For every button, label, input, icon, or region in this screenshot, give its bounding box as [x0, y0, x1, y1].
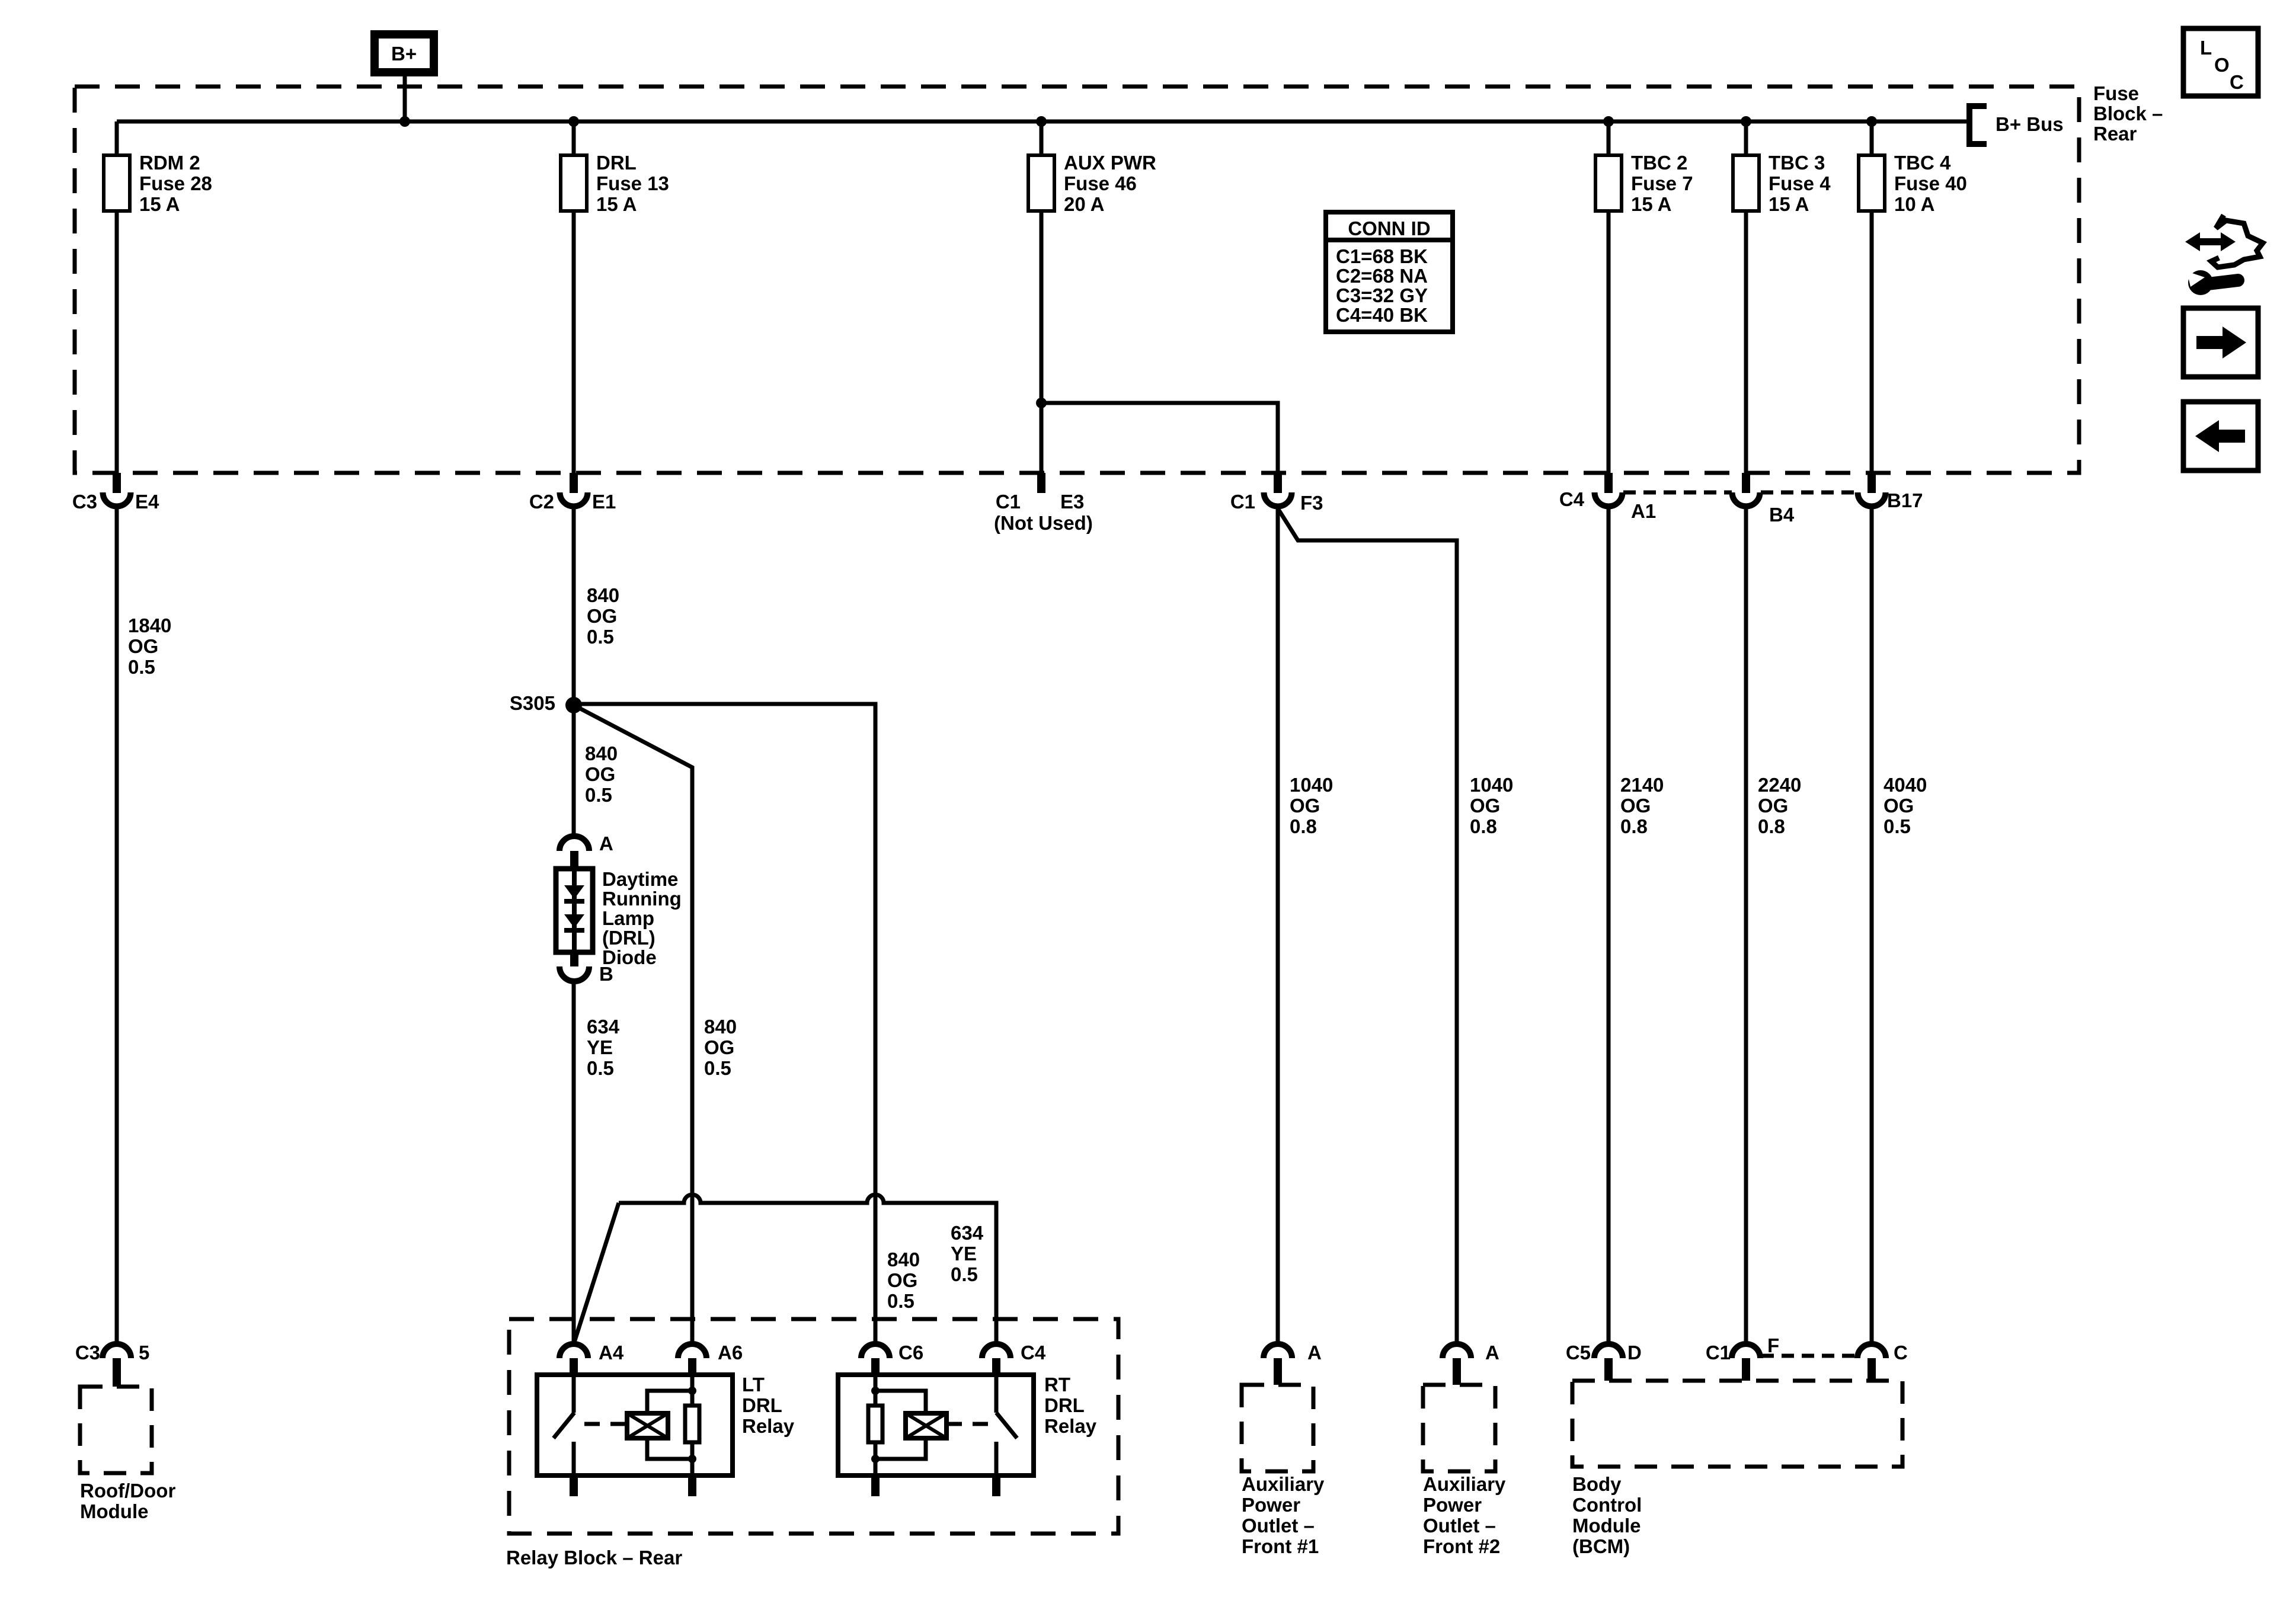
junction dot at B+ drop — [399, 116, 410, 127]
junction dot LT top — [688, 1387, 696, 1395]
svg-text:15 A: 15 A — [596, 193, 637, 215]
back arrow box — [2183, 402, 2258, 470]
svg-text:634: 634 — [951, 1222, 984, 1244]
connector C1/F (BCM) — [1732, 1344, 1760, 1358]
wire S305 to A6 branch — [574, 705, 692, 1344]
svg-text:Auxiliary: Auxiliary — [1423, 1473, 1506, 1495]
svg-text:LT: LT — [742, 1374, 765, 1395]
connector A (Aux #1) — [1264, 1344, 1292, 1358]
wire A4 to C4 (634 YE) with hops — [619, 1195, 996, 1344]
svg-text:Power: Power — [1242, 1494, 1300, 1516]
svg-text:0.8: 0.8 — [1290, 815, 1317, 837]
svg-text:Running: Running — [602, 888, 682, 910]
svg-text:DRL: DRL — [596, 152, 637, 174]
svg-text:840: 840 — [887, 1249, 920, 1270]
svg-text:Power: Power — [1423, 1494, 1482, 1516]
svg-text:634: 634 — [587, 1016, 620, 1038]
svg-text:DRL: DRL — [1044, 1394, 1085, 1416]
junction dot RT top — [871, 1387, 880, 1395]
svg-text:D: D — [1627, 1342, 1642, 1363]
Roof/Door Module box — [80, 1387, 152, 1473]
fuse TBC 3 / Fuse 4 / 15 A — [1744, 121, 1748, 473]
svg-text:OG: OG — [128, 635, 158, 657]
svg-text:Fuse 28: Fuse 28 — [139, 172, 212, 194]
svg-text:10 A: 10 A — [1894, 193, 1934, 215]
svg-text:A6: A6 — [718, 1342, 743, 1363]
svg-text:AUX PWR: AUX PWR — [1064, 152, 1156, 174]
svg-text:C1=68 BK: C1=68 BK — [1336, 245, 1428, 267]
svg-text:TBC 2: TBC 2 — [1631, 152, 1687, 174]
svg-text:RDM 2: RDM 2 — [139, 152, 200, 174]
svg-text:C: C — [2230, 71, 2244, 93]
Relay Block - Rear dashed outline — [509, 1319, 1118, 1534]
connector C (BCM) — [1857, 1344, 1886, 1358]
service icon panel outline — [2211, 215, 2263, 267]
wire AUX branch to F3 — [1041, 403, 1278, 473]
wire B+ to bus — [403, 76, 407, 121]
svg-text:15 A: 15 A — [1769, 193, 1809, 215]
connector B (diode) — [570, 952, 578, 966]
RT relay bottom stubs — [871, 1475, 880, 1496]
svg-text:0.5: 0.5 — [587, 626, 614, 648]
LT relay bottom stubs — [570, 1475, 578, 1496]
svg-text:YE: YE — [587, 1036, 613, 1058]
svg-text:Fuse: Fuse — [2093, 82, 2139, 104]
svg-text:B+ Bus: B+ Bus — [1996, 113, 2064, 135]
svg-text:(Not Used): (Not Used) — [994, 512, 1093, 534]
LT relay coil — [627, 1413, 668, 1438]
connector-row dashed link F-C — [1761, 1354, 1857, 1358]
svg-text:E3: E3 — [1060, 491, 1084, 513]
RT relay mechanical link — [946, 1422, 988, 1426]
svg-text:0.5: 0.5 — [951, 1263, 978, 1285]
svg-text:C1: C1 — [1230, 491, 1255, 513]
svg-text:4040: 4040 — [1884, 774, 1927, 796]
svg-text:0.5: 0.5 — [585, 784, 612, 806]
svg-text:A: A — [599, 833, 613, 854]
LT relay mechanical link — [584, 1422, 626, 1426]
svg-text:S305: S305 — [510, 692, 555, 714]
fuse DRL / Fuse 13 / 15 A — [572, 121, 576, 473]
DRL diode box — [556, 869, 593, 952]
svg-text:Front #1: Front #1 — [1242, 1535, 1319, 1557]
junction dot RT bottom — [871, 1455, 880, 1463]
service icon double arrow — [2196, 238, 2224, 245]
svg-text:A4: A4 — [599, 1342, 624, 1363]
connector C1/F3 — [1274, 473, 1282, 493]
svg-text:L: L — [2200, 37, 2212, 59]
svg-text:C3: C3 — [75, 1342, 100, 1363]
junction dot at TBC 3 fuse — [1741, 116, 1751, 127]
wire 840 OG 0.5 (E1 to S305) — [572, 507, 576, 705]
svg-text:0.5: 0.5 — [128, 656, 155, 678]
junction dot at DRL fuse — [568, 116, 579, 127]
svg-text:Relay Block – Rear: Relay Block – Rear — [506, 1547, 682, 1569]
LOC legend box — [2183, 28, 2258, 96]
splice S305 — [565, 697, 582, 713]
RT relay coil — [906, 1413, 946, 1438]
junction dot at TBC 4 fuse — [1866, 116, 1877, 127]
svg-text:(BCM): (BCM) — [1572, 1535, 1630, 1557]
svg-text:OG: OG — [587, 605, 617, 627]
connector A (diode) — [559, 836, 589, 851]
svg-text:B4: B4 — [1769, 504, 1795, 526]
connector A6 (LT DRL relay) — [678, 1344, 706, 1358]
fuse AUX PWR / Fuse 46 / 20 A — [1040, 121, 1044, 473]
connector A4 (LT DRL relay) — [559, 1344, 588, 1358]
svg-text:C2=68 NA: C2=68 NA — [1336, 265, 1428, 287]
connector C5/D (BCM) — [1594, 1344, 1623, 1358]
svg-text:0.8: 0.8 — [1758, 815, 1785, 837]
svg-text:C2: C2 — [529, 491, 554, 513]
svg-text:Roof/Door: Roof/Door — [80, 1480, 175, 1502]
svg-text:Outlet –: Outlet – — [1423, 1515, 1496, 1537]
junction dot at TBC 2 fuse — [1603, 116, 1614, 127]
svg-text:0.8: 0.8 — [1470, 815, 1497, 837]
svg-text:C1: C1 — [1706, 1342, 1731, 1363]
svg-text:C1: C1 — [996, 491, 1021, 513]
svg-text:Fuse 13: Fuse 13 — [596, 172, 669, 194]
svg-text:C5: C5 — [1566, 1342, 1591, 1363]
svg-text:DRL: DRL — [742, 1394, 782, 1416]
svg-text:OG: OG — [1620, 795, 1651, 817]
wire 1840 OG 0.5 (E4 to Roof/Door) — [115, 507, 119, 1344]
svg-text:0.5: 0.5 — [887, 1290, 914, 1312]
svg-text:Fuse 46: Fuse 46 — [1064, 172, 1137, 194]
svg-text:20 A: 20 A — [1064, 193, 1104, 215]
fuse block - rear dashed outline — [75, 87, 2079, 473]
svg-text:Daytime: Daytime — [602, 868, 678, 890]
svg-text:E4: E4 — [135, 491, 159, 513]
LT DRL relay box — [537, 1375, 733, 1475]
svg-text:840: 840 — [585, 742, 618, 764]
svg-text:C4=40 BK: C4=40 BK — [1336, 304, 1428, 326]
B+ Bus terminal bracket — [1969, 106, 1987, 144]
fuse TBC 4 / Fuse 40 / 10 A — [1870, 121, 1874, 473]
LT relay resistor branch — [690, 1375, 695, 1475]
wire S305 to diode — [572, 705, 576, 837]
svg-text:1040: 1040 — [1290, 774, 1333, 796]
svg-text:Lamp: Lamp — [602, 907, 654, 929]
wire 2240 OG 0.8 (B4 to BCM F) — [1744, 507, 1748, 1344]
connector B4 — [1742, 473, 1750, 493]
connector A (Aux #2) — [1443, 1344, 1471, 1358]
svg-text:2140: 2140 — [1620, 774, 1664, 796]
junction dot at AUX PWR fuse — [1036, 116, 1047, 127]
connector C6 (RT DRL relay) — [861, 1344, 890, 1358]
svg-text:Control: Control — [1572, 1494, 1642, 1516]
svg-text:A1: A1 — [1631, 500, 1656, 522]
wire 2140 OG 0.8 (A1 to BCM D) — [1607, 507, 1611, 1344]
svg-text:C3=32 GY: C3=32 GY — [1336, 284, 1428, 306]
svg-text:A: A — [1307, 1342, 1322, 1363]
diode element 1 — [564, 885, 584, 899]
svg-text:C4: C4 — [1021, 1342, 1046, 1363]
connector B17 — [1868, 473, 1876, 493]
wire 1040 OG 0.8 (F3 to Aux #1) — [1276, 507, 1280, 1344]
svg-text:Front #2: Front #2 — [1423, 1535, 1500, 1557]
svg-text:B: B — [599, 963, 613, 985]
svg-text:Block –: Block – — [2093, 103, 2163, 124]
wire branch F3 to Aux #2 — [1278, 508, 1457, 1344]
svg-text:Relay: Relay — [742, 1415, 795, 1437]
svg-text:1840: 1840 — [128, 614, 171, 636]
svg-text:0.5: 0.5 — [704, 1057, 731, 1079]
wire 634 YE 0.5 (diode B to A4) — [572, 981, 576, 1344]
svg-text:O: O — [2214, 54, 2230, 76]
Body Control Module box — [1572, 1381, 1902, 1467]
svg-text:Fuse 40: Fuse 40 — [1894, 172, 1967, 194]
svg-text:0.5: 0.5 — [587, 1057, 614, 1079]
svg-text:5: 5 — [139, 1342, 149, 1363]
svg-text:840: 840 — [704, 1016, 737, 1038]
svg-text:15 A: 15 A — [1631, 193, 1671, 215]
connector C3/5 (Roof/Door Module) — [103, 1344, 131, 1358]
svg-text:TBC 4: TBC 4 — [1894, 152, 1951, 174]
service icon wrench — [2188, 270, 2213, 295]
svg-text:Relay: Relay — [1044, 1415, 1097, 1437]
RT DRL relay box — [838, 1375, 1034, 1475]
wire S305 to C6 branch — [574, 704, 875, 1344]
svg-text:OG: OG — [887, 1269, 917, 1291]
svg-text:OG: OG — [704, 1036, 734, 1058]
svg-text:15 A: 15 A — [139, 193, 180, 215]
svg-text:C: C — [1894, 1342, 1908, 1363]
svg-text:OG: OG — [585, 763, 615, 785]
svg-text:0.5: 0.5 — [1884, 815, 1911, 837]
svg-text:CONN ID: CONN ID — [1348, 217, 1430, 239]
svg-text:RT: RT — [1044, 1374, 1070, 1395]
fuse RDM 2 / Fuse 28 / 15 A — [115, 121, 119, 473]
svg-text:Outlet –: Outlet – — [1242, 1515, 1315, 1537]
Auxiliary Power Outlet Front #1 box — [1242, 1385, 1313, 1471]
B+ bus wire — [117, 120, 1968, 124]
svg-text:E1: E1 — [592, 491, 616, 513]
junction dot on AUX PWR wire — [1036, 398, 1047, 408]
svg-text:Fuse 4: Fuse 4 — [1769, 172, 1831, 194]
svg-text:1040: 1040 — [1470, 774, 1513, 796]
CONN ID table — [1326, 212, 1453, 332]
RT relay resistor branch — [874, 1375, 878, 1475]
connector C4/A1 — [1604, 473, 1613, 493]
connector C3/E4 — [113, 473, 121, 493]
svg-text:F: F — [1767, 1334, 1779, 1356]
svg-text:840: 840 — [587, 584, 619, 606]
svg-text:Rear: Rear — [2093, 123, 2137, 145]
diode element 2 — [564, 914, 584, 928]
svg-text:Module: Module — [80, 1500, 148, 1522]
svg-text:B+: B+ — [391, 43, 417, 65]
svg-text:OG: OG — [1758, 795, 1788, 817]
svg-text:A: A — [1485, 1342, 1499, 1363]
svg-text:Body: Body — [1572, 1473, 1622, 1495]
svg-text:(DRL): (DRL) — [602, 927, 655, 949]
connector-row dashed link A1-B4-B17 — [1623, 491, 1732, 495]
LT relay switch — [572, 1375, 576, 1413]
Auxiliary Power Outlet Front #2 box — [1423, 1385, 1495, 1471]
svg-text:F3: F3 — [1300, 492, 1323, 514]
RT relay switch — [994, 1375, 999, 1413]
connector C1/E3 (Not Used) — [1037, 473, 1045, 493]
forward arrow box — [2183, 308, 2258, 377]
svg-text:Module: Module — [1572, 1515, 1641, 1537]
svg-text:C3: C3 — [72, 491, 97, 513]
svg-text:OG: OG — [1290, 795, 1320, 817]
svg-text:OG: OG — [1470, 795, 1500, 817]
wire 4040 OG 0.5 (B17 to BCM C) — [1870, 507, 1874, 1344]
svg-text:2240: 2240 — [1758, 774, 1801, 796]
power feed B+ box — [375, 34, 434, 72]
svg-text:YE: YE — [951, 1243, 977, 1265]
fuse TBC 2 / Fuse 7 / 15 A — [1607, 121, 1611, 473]
svg-text:B17: B17 — [1887, 489, 1923, 511]
svg-text:OG: OG — [1884, 795, 1914, 817]
svg-text:TBC 3: TBC 3 — [1769, 152, 1825, 174]
svg-text:C4: C4 — [1559, 488, 1585, 510]
svg-text:0.8: 0.8 — [1620, 815, 1648, 837]
svg-text:C6: C6 — [898, 1342, 923, 1363]
svg-text:Fuse 7: Fuse 7 — [1631, 172, 1693, 194]
connector C4 (RT DRL relay) — [982, 1344, 1011, 1358]
connector C2/E1 — [570, 473, 578, 493]
junction dot LT bottom — [688, 1455, 696, 1463]
svg-text:Auxiliary: Auxiliary — [1242, 1473, 1325, 1495]
